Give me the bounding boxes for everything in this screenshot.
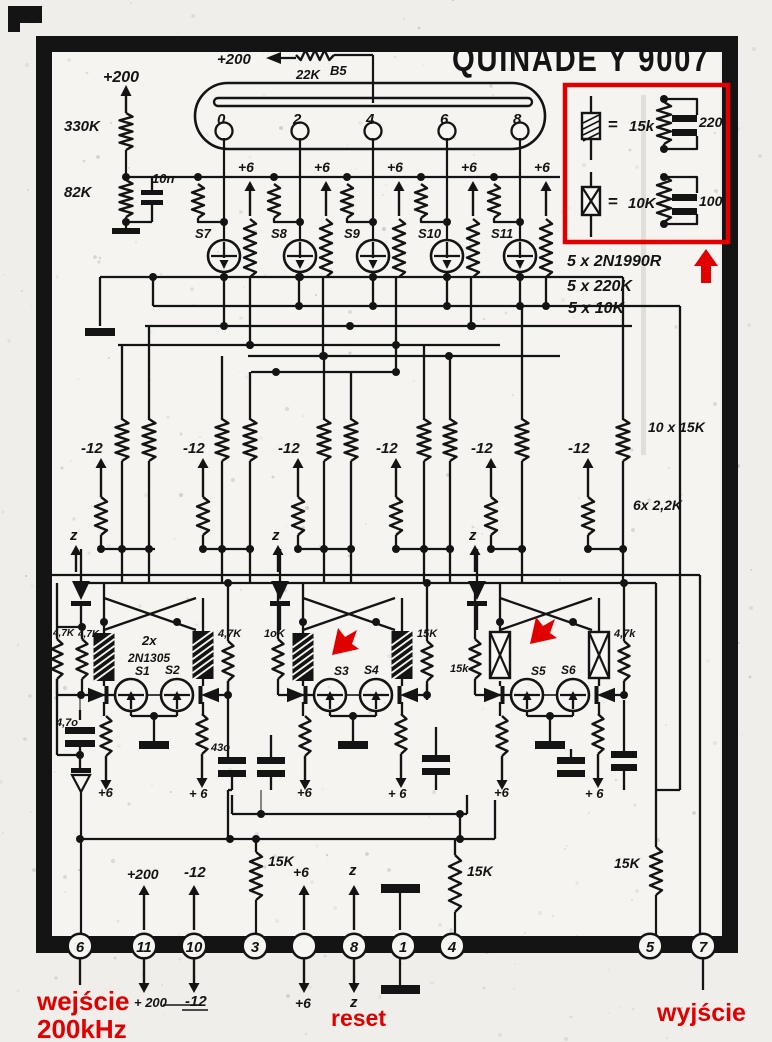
svg-text:2N1305: 2N1305: [127, 651, 170, 665]
svg-text:z: z: [468, 527, 477, 544]
svg-text:S11: S11: [491, 226, 513, 241]
svg-text:-12: -12: [185, 993, 207, 1010]
svg-text:-12: -12: [376, 440, 398, 457]
svg-text:11: 11: [136, 939, 152, 956]
svg-text:15K: 15K: [268, 853, 295, 869]
svg-text:+6: +6: [461, 159, 477, 175]
svg-text:10: 10: [186, 939, 203, 956]
svg-text:=: =: [608, 115, 618, 134]
svg-text:4,7K: 4,7K: [217, 628, 242, 640]
svg-text:3: 3: [251, 939, 260, 956]
svg-text:-12: -12: [183, 440, 205, 457]
svg-text:S4: S4: [364, 663, 379, 677]
svg-text:10n: 10n: [152, 171, 174, 186]
svg-text:0: 0: [217, 111, 226, 128]
svg-text:1: 1: [399, 939, 407, 956]
svg-text:+6: +6: [387, 159, 403, 175]
svg-text:+200: +200: [127, 866, 159, 882]
svg-text:2x: 2x: [141, 633, 157, 648]
svg-text:B5: B5: [330, 63, 347, 78]
svg-text:+6: +6: [494, 785, 510, 800]
svg-text:wyjście: wyjście: [656, 999, 746, 1027]
svg-text:15k: 15k: [629, 118, 655, 135]
svg-text:+ 6: + 6: [585, 786, 604, 801]
svg-text:reset: reset: [331, 1005, 386, 1031]
svg-text:z: z: [69, 527, 78, 544]
svg-text:+200: +200: [217, 51, 251, 68]
svg-text:330K: 330K: [64, 118, 101, 135]
svg-text:S8: S8: [271, 226, 288, 241]
svg-text:-12: -12: [81, 440, 103, 457]
svg-text:+6: +6: [297, 785, 313, 800]
svg-text:15K: 15K: [467, 863, 494, 879]
svg-text:wejście: wejście: [36, 986, 130, 1016]
svg-text:+ 6: + 6: [189, 786, 208, 801]
svg-text:S1: S1: [135, 664, 150, 678]
svg-text:S7: S7: [195, 226, 212, 241]
svg-text:200kHz: 200kHz: [37, 1014, 127, 1042]
svg-text:82K: 82K: [64, 184, 93, 201]
svg-text:S10: S10: [418, 226, 442, 241]
svg-text:4,7K: 4,7K: [52, 628, 75, 639]
svg-text:+6: +6: [534, 159, 550, 175]
svg-text:10 x 15K: 10 x 15K: [648, 419, 706, 435]
svg-text:-12: -12: [568, 440, 590, 457]
svg-text:10K: 10K: [628, 195, 657, 212]
svg-text:15K: 15K: [614, 855, 641, 871]
svg-text:+6: +6: [295, 995, 311, 1011]
svg-text:4: 4: [447, 939, 457, 956]
svg-text:-12: -12: [278, 440, 300, 457]
svg-text:1oK: 1oK: [264, 628, 286, 640]
svg-text:+6: +6: [98, 785, 114, 800]
svg-text:5 x 10K: 5 x 10K: [568, 300, 625, 317]
svg-text:+6: +6: [293, 864, 309, 880]
svg-text:S9: S9: [344, 226, 361, 241]
svg-text:5: 5: [646, 939, 655, 956]
svg-text:+200: +200: [103, 69, 139, 86]
svg-text:8: 8: [350, 939, 359, 956]
svg-text:S5: S5: [531, 664, 546, 678]
svg-text:-12: -12: [471, 440, 493, 457]
svg-text:z: z: [348, 862, 357, 879]
svg-text:220: 220: [698, 114, 723, 130]
svg-text:7: 7: [699, 939, 708, 956]
svg-text:6x 2,2K: 6x 2,2K: [633, 497, 683, 513]
svg-text:S3: S3: [334, 664, 349, 678]
svg-text:100: 100: [699, 193, 723, 209]
svg-text:QUINADE Y 9007: QUINADE Y 9007: [452, 40, 710, 79]
svg-text:5 x 2N1990R: 5 x 2N1990R: [567, 253, 662, 270]
svg-text:z: z: [271, 527, 280, 544]
svg-text:S2: S2: [165, 663, 180, 677]
svg-text:S6: S6: [561, 663, 576, 677]
svg-text:=: =: [608, 192, 618, 211]
svg-text:+ 200: + 200: [134, 995, 168, 1010]
svg-text:+6: +6: [314, 159, 330, 175]
svg-text:6: 6: [76, 939, 85, 956]
svg-text:2: 2: [292, 111, 302, 128]
svg-text:-12: -12: [184, 864, 206, 881]
svg-text:+ 6: + 6: [388, 786, 407, 801]
svg-text:4: 4: [365, 111, 375, 128]
svg-text:6: 6: [440, 111, 449, 128]
svg-text:15k: 15k: [450, 663, 469, 675]
svg-text:22K: 22K: [295, 67, 321, 82]
svg-text:8: 8: [513, 111, 522, 128]
svg-text:5 x 220K: 5 x 220K: [567, 278, 633, 295]
svg-text:+6: +6: [238, 159, 254, 175]
